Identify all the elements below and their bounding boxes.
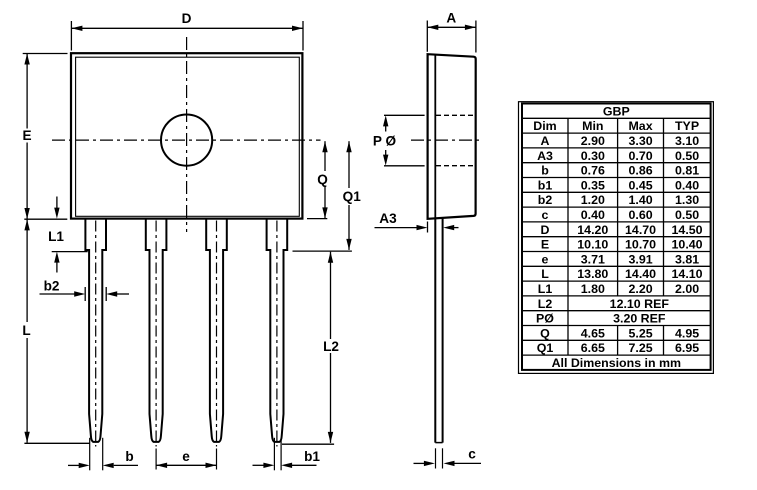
front view: pin 1 centerline [95, 221, 97, 447]
table row Q1 [537, 341, 699, 355]
dimension D line with arrows [71, 26, 303, 31]
svg-text:b: b [541, 164, 549, 178]
dimension c extension lines [436, 448, 443, 468]
svg-text:14.70: 14.70 [625, 223, 656, 237]
table row b1 [538, 178, 699, 192]
table border [522, 104, 711, 370]
svg-text:b: b [125, 449, 133, 464]
dimension D extension line right [302, 21, 304, 51]
svg-text:D: D [182, 11, 192, 26]
dimension Q line with arrows [322, 141, 327, 218]
svg-text:0.50: 0.50 [675, 208, 699, 222]
dimension L2 line with arrows [328, 252, 333, 443]
svg-text:e: e [542, 252, 549, 266]
svg-text:10.10: 10.10 [577, 238, 608, 252]
svg-text:1.80: 1.80 [581, 282, 605, 296]
svg-text:0.30: 0.30 [581, 149, 605, 163]
svg-text:A: A [541, 134, 550, 148]
dimension c label [468, 447, 476, 462]
svg-text:3.81: 3.81 [675, 252, 699, 266]
dimension c arrows [414, 461, 482, 466]
front view: pin 2 centerline [155, 221, 157, 447]
dimension A line with arrows [427, 25, 476, 30]
svg-text:0.86: 0.86 [628, 164, 652, 178]
dimension b1 label [304, 449, 320, 464]
svg-text:0.40: 0.40 [675, 178, 699, 192]
svg-text:All Dimensions in mm: All Dimensions in mm [552, 356, 681, 370]
table row A [541, 134, 700, 148]
dimension L label [22, 323, 30, 338]
svg-text:b2: b2 [538, 193, 553, 207]
dimension b arrows [68, 463, 138, 468]
svg-text:14.20: 14.20 [577, 223, 608, 237]
table row e [542, 252, 700, 266]
side view: horizontal centerline [411, 139, 481, 141]
svg-text:GBP: GBP [603, 104, 630, 118]
svg-text:7.25: 7.25 [628, 341, 652, 355]
side view: package body outline [428, 54, 476, 219]
svg-text:E: E [22, 128, 31, 143]
front view: horizontal centerline [52, 139, 321, 141]
svg-text:TYP: TYP [675, 119, 699, 133]
svg-text:E: E [541, 238, 549, 252]
svg-text:0.81: 0.81 [675, 164, 699, 178]
svg-text:L2: L2 [538, 297, 553, 311]
svg-text:A: A [446, 11, 456, 26]
svg-text:L1: L1 [538, 282, 553, 296]
front view: pin 4 centerline [276, 221, 278, 447]
pin tip extension line bottom right [282, 443, 334, 445]
front view: pin 1 outline [85, 219, 106, 442]
svg-text:Q: Q [317, 172, 328, 187]
svg-text:1.30: 1.30 [675, 193, 699, 207]
table row L2 [538, 297, 670, 311]
svg-text:10.70: 10.70 [625, 238, 656, 252]
front view: vertical centerline [186, 37, 188, 232]
table vertical grid lines [568, 118, 664, 355]
svg-text:L1: L1 [48, 229, 64, 244]
svg-text:14.10: 14.10 [672, 267, 703, 281]
dimension b1 arrows [253, 463, 317, 468]
side view: hidden hole line top [436, 114, 475, 116]
dimension E extension line top [23, 53, 68, 55]
svg-text:Q1: Q1 [343, 189, 362, 204]
dimension E label [22, 128, 31, 143]
svg-text:4.95: 4.95 [675, 326, 699, 340]
dimension L1 label [48, 229, 64, 244]
dimension D extension line left [70, 21, 72, 51]
svg-text:b2: b2 [44, 279, 60, 294]
dimension A label [446, 11, 456, 26]
table row Q [540, 326, 699, 340]
table row L1 [538, 282, 699, 296]
front view: package body outer outline [71, 53, 302, 218]
side view: lead frame parting line [434, 55, 436, 219]
svg-text:5.25: 5.25 [628, 326, 652, 340]
pin tip extension line bottom left [24, 442, 89, 444]
svg-text:L: L [541, 267, 549, 281]
front view: pin 2 outline [146, 219, 167, 442]
dimension P label [373, 134, 397, 149]
svg-text:3.30: 3.30 [628, 134, 652, 148]
front view: package body inner outline [76, 57, 300, 216]
table row L [541, 267, 702, 281]
dimension b2 extension line right [105, 287, 107, 301]
dimension b1 extension lines below pin 4 [274, 438, 281, 471]
svg-text:Min: Min [582, 119, 603, 133]
dimension P extension lines [384, 115, 425, 166]
dimension L line with arrows [24, 219, 29, 442]
table footer All Dimensions in mm [552, 356, 681, 370]
svg-text:D: D [541, 223, 550, 237]
dimension b2 extension line left [84, 287, 86, 301]
svg-text:4.65: 4.65 [581, 326, 605, 340]
dimension e label [182, 449, 190, 464]
dimension L1 lower arrow (points up to shoulder) [54, 252, 59, 273]
svg-text:12.10 REF: 12.10 REF [610, 297, 670, 311]
dimension Q1 label [343, 189, 362, 204]
svg-text:3.91: 3.91 [628, 252, 652, 266]
table row E [541, 238, 703, 252]
svg-text:6.95: 6.95 [675, 341, 699, 355]
front view: pin 4 outline [267, 219, 288, 442]
front view: pin 3 centerline [216, 221, 218, 447]
svg-text:Q: Q [540, 326, 550, 340]
dimension D label [182, 11, 192, 26]
svg-text:Q1: Q1 [537, 341, 554, 355]
svg-text:0.45: 0.45 [628, 178, 652, 192]
svg-text:14.50: 14.50 [672, 223, 703, 237]
dimension A extension lines [427, 21, 476, 53]
svg-text:c: c [542, 208, 549, 222]
svg-text:0.40: 0.40 [581, 208, 605, 222]
svg-text:2.20: 2.20 [628, 282, 652, 296]
svg-text:A3: A3 [379, 211, 397, 226]
svg-text:L2: L2 [323, 339, 339, 354]
dimension b extension lines below pin 1 [90, 438, 103, 471]
dimension E / L extension line at body bottom left [24, 218, 67, 220]
svg-text:3.20 REF: 3.20 REF [613, 312, 666, 326]
side view: hidden hole line bottom [436, 165, 474, 167]
dimension A3 arrows [375, 225, 459, 230]
dimension L1 upper arrow (points down to body bottom) [54, 197, 59, 219]
front view: pin 3 outline [206, 219, 227, 442]
shoulder extension line right [293, 250, 352, 252]
dimension b2 arrows [40, 291, 130, 296]
dimension b2 label [44, 279, 60, 294]
table outer box [519, 102, 714, 374]
svg-text:14.40: 14.40 [625, 267, 656, 281]
svg-text:c: c [468, 447, 476, 462]
svg-text:1.20: 1.20 [581, 193, 605, 207]
svg-text:10.40: 10.40 [672, 238, 703, 252]
dimension Q1 line with arrows [346, 141, 351, 250]
svg-text:6.65: 6.65 [581, 341, 605, 355]
svg-text:A3: A3 [537, 149, 553, 163]
svg-text:2.90: 2.90 [581, 134, 605, 148]
svg-text:0.76: 0.76 [581, 164, 605, 178]
svg-text:0.60: 0.60 [628, 208, 652, 222]
dimension e line with arrows [156, 463, 216, 468]
table row P diameter [536, 312, 666, 326]
dimension e extension lines (pin 2,3 centers) [156, 449, 216, 470]
svg-text:b1: b1 [304, 449, 320, 464]
svg-text:PØ: PØ [536, 312, 554, 326]
table row b2 [538, 193, 699, 207]
dimension A3 label [379, 211, 397, 226]
svg-text:0.50: 0.50 [675, 149, 699, 163]
svg-text:13.80: 13.80 [577, 267, 608, 281]
dimension b label [125, 449, 133, 464]
svg-text:0.70: 0.70 [628, 149, 652, 163]
svg-text:P Ø: P Ø [373, 134, 397, 149]
side view: lead (pin) [435, 217, 442, 442]
dimension P arrows [383, 115, 388, 165]
svg-text:Dim: Dim [533, 119, 556, 133]
svg-text:2.00: 2.00 [675, 282, 699, 296]
table horizontal grid lines [522, 118, 711, 355]
table header GBP [603, 104, 630, 118]
svg-text:L: L [22, 323, 30, 338]
svg-text:3.71: 3.71 [581, 252, 605, 266]
svg-text:0.35: 0.35 [581, 178, 605, 192]
svg-text:Max: Max [628, 119, 652, 133]
table row b [541, 164, 699, 178]
dimension E line with arrows [24, 54, 29, 220]
svg-text:3.10: 3.10 [675, 134, 699, 148]
table row A3 [537, 149, 699, 163]
dimension Q extension line at body bottom right [307, 218, 327, 220]
table row D [541, 223, 703, 237]
svg-text:b1: b1 [538, 178, 553, 192]
shoulder extension line left [52, 251, 88, 253]
table header row Dim Min Max TYP [533, 119, 699, 133]
table row c [542, 208, 700, 222]
svg-text:1.40: 1.40 [628, 193, 652, 207]
dimension L2 label [323, 339, 339, 354]
dimension A3 extension line [427, 222, 429, 233]
svg-text:e: e [182, 449, 190, 464]
front view: mounting hole circle [161, 115, 212, 166]
dimension Q label [317, 172, 328, 187]
